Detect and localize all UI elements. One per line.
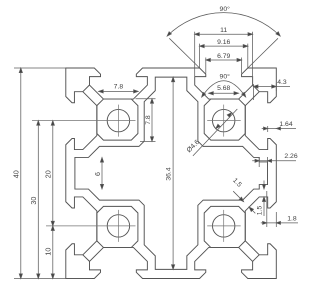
dimension 1.8 <box>261 222 298 224</box>
dimension 30 left <box>37 121 39 279</box>
dimension 10 left <box>52 226 54 279</box>
extension line top-left <box>14 67 66 69</box>
dimension 20 left <box>52 121 54 226</box>
centerline hole top-left <box>32 120 136 122</box>
core block TR <box>204 99 245 140</box>
centerline hole bottom-left <box>46 225 136 227</box>
svg-text:6: 6 <box>93 172 102 176</box>
svg-text:30: 30 <box>29 197 38 205</box>
dimension dia 4.6 <box>193 109 237 156</box>
svg-text:Ø4.6: Ø4.6 <box>186 139 202 155</box>
svg-text:10: 10 <box>44 248 53 256</box>
dimension 90 deg vee <box>169 38 199 68</box>
svg-text:9.16: 9.16 <box>217 39 230 46</box>
dimension 1.5 channel <box>233 191 243 201</box>
dimension 7.8 block height <box>151 99 153 142</box>
dimension 1.64 <box>262 128 296 130</box>
svg-text:20: 20 <box>44 170 53 178</box>
svg-text:1.64: 1.64 <box>279 121 292 128</box>
svg-text:6.79: 6.79 <box>217 53 230 60</box>
hole top-right Ø4.6 <box>212 109 234 131</box>
dimension 6 cavity <box>101 158 103 190</box>
dimension 2.26 <box>252 160 296 162</box>
svg-text:1.5: 1.5 <box>231 177 243 189</box>
corner web face TL <box>83 85 90 92</box>
svg-text:7.8: 7.8 <box>145 115 152 125</box>
dimension 40 left <box>20 68 22 279</box>
dimension 36.4 center <box>172 77 174 269</box>
svg-text:4.3: 4.3 <box>277 79 287 86</box>
dimension 7.8 slot width <box>99 90 139 92</box>
dimension 9.16 <box>200 45 248 47</box>
extension line bottom-left <box>14 278 92 280</box>
svg-text:5.68: 5.68 <box>217 85 230 92</box>
hole top-left Ø4.6 <box>107 109 129 131</box>
dimension 1.5 web <box>263 181 265 190</box>
svg-text:36.4: 36.4 <box>166 167 173 180</box>
svg-text:7.8: 7.8 <box>114 83 124 90</box>
svg-text:90°: 90° <box>220 5 231 13</box>
centerline hole top-right <box>207 120 241 122</box>
hole bottom-left Ø4.6 <box>107 215 129 237</box>
svg-text:2.26: 2.26 <box>284 153 297 160</box>
dimension 5.68 <box>209 92 239 94</box>
svg-text:90°: 90° <box>220 72 231 80</box>
dimension 11 <box>195 33 253 35</box>
svg-text:11: 11 <box>220 27 227 34</box>
dimension 4.3 <box>253 86 290 88</box>
core block BL <box>97 206 138 247</box>
central cavity <box>75 77 268 269</box>
corner web face TR <box>253 85 260 92</box>
hole bottom-right Ø4.6 <box>212 215 234 237</box>
core block TL <box>97 99 138 140</box>
svg-text:1.5: 1.5 <box>256 206 263 216</box>
dimension 6.79 <box>206 59 242 61</box>
profile outline <box>66 68 276 279</box>
centerline hole bottom-right <box>207 225 241 227</box>
core block BR <box>204 206 245 247</box>
corner web face BL <box>83 255 90 262</box>
dimension 90 deg slot <box>202 81 246 97</box>
svg-text:40: 40 <box>12 170 21 178</box>
svg-text:1.8: 1.8 <box>287 215 297 222</box>
corner web face BR <box>253 255 260 262</box>
